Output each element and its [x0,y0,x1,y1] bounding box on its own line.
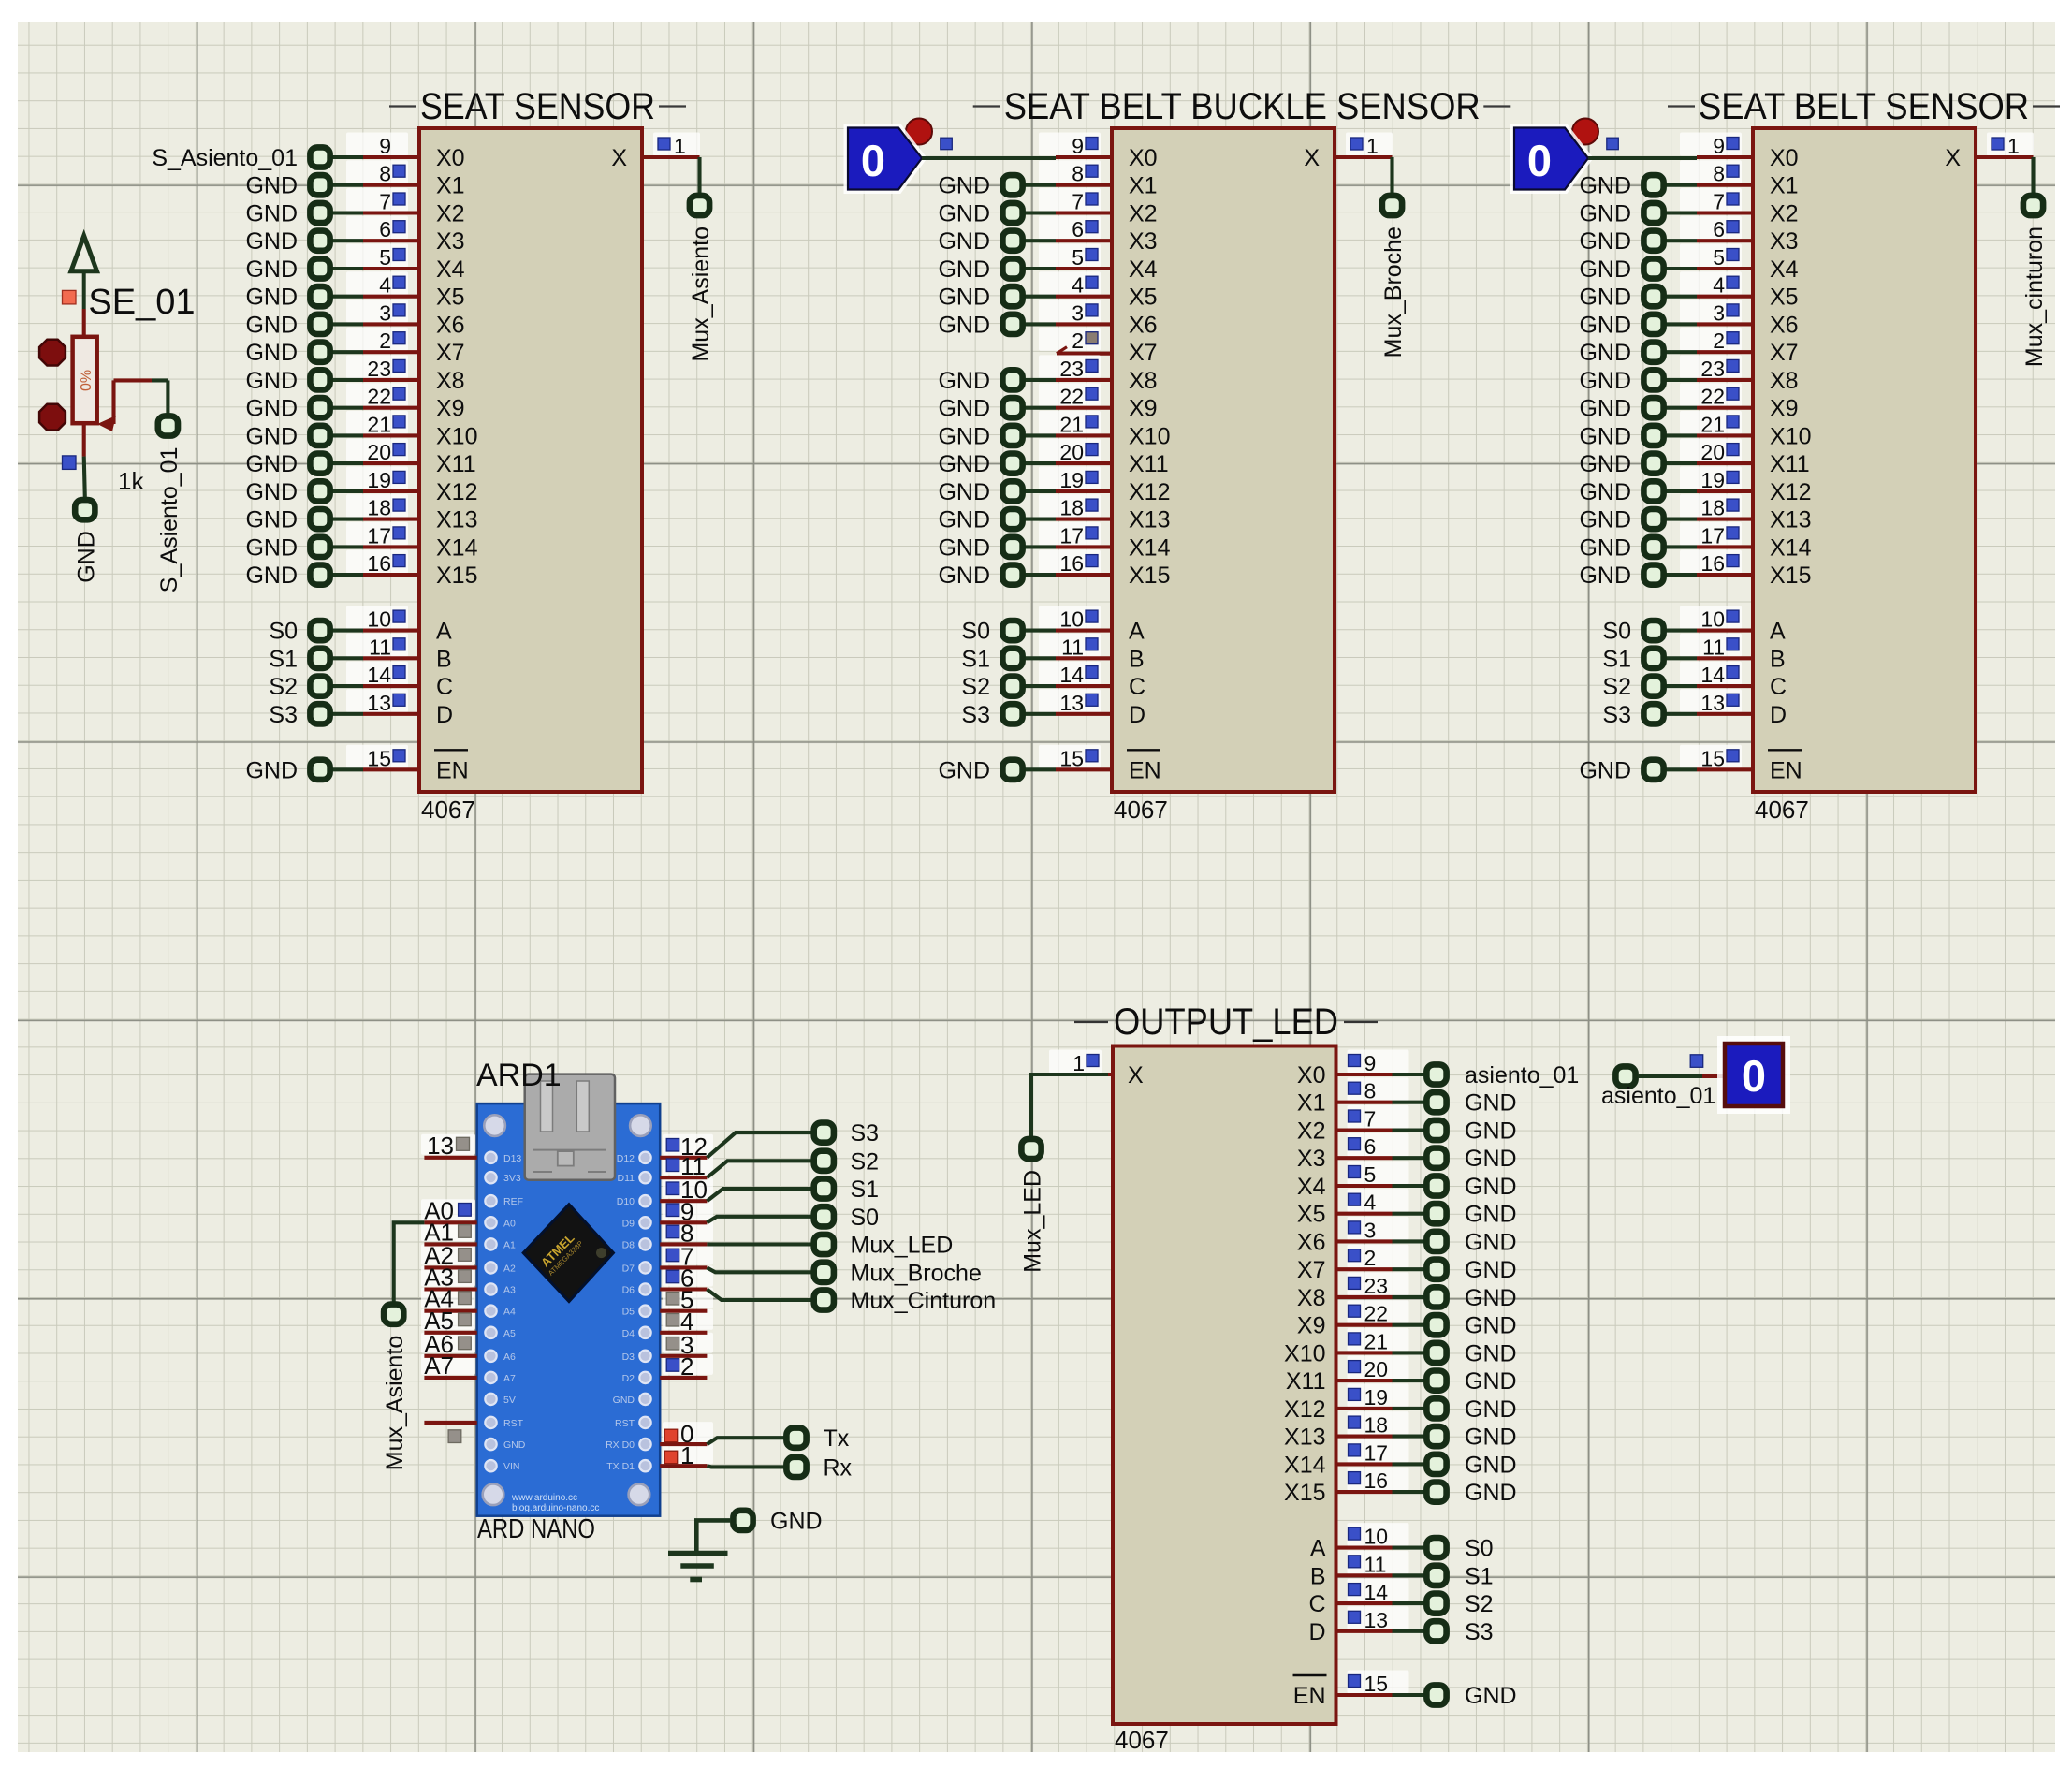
svg-text:S0: S0 [269,619,298,645]
U1 pin 23 (X8) [346,355,419,381]
U1 pin 22 (X9) [346,383,419,409]
terminal Mux_LED [814,1233,954,1259]
svg-text:S2: S2 [1602,674,1631,700]
svg-text:S3: S3 [269,702,298,728]
svg-text:GND: GND [1465,1368,1517,1395]
U4 pin 20 (X11) [1336,1356,1409,1382]
svg-text:17: 17 [1059,523,1084,548]
U2 pin 4 (X5) [1039,271,1112,298]
terminal GND (from X11) [1393,1368,1517,1395]
svg-text:17: 17 [367,523,391,548]
wire X output down to terminal Mux_Broche [1390,157,1393,194]
svg-text:GND: GND [1579,423,1631,449]
svg-text:asiento_01: asiento_01 [1601,1083,1715,1109]
value label 4067 [1755,796,1809,824]
terminal GND (to X7) [245,340,363,366]
node square [1607,138,1619,150]
svg-text:X0: X0 [1297,1062,1326,1089]
svg-text:X1: X1 [436,173,465,199]
terminal GND (from X4) [1393,1174,1517,1200]
svg-text:blog.arduino-nano.cc: blog.arduino-nano.cc [512,1503,599,1513]
terminal GND (to X11) [938,451,1056,477]
svg-text:D5: D5 [622,1307,635,1318]
svg-text:X3: X3 [1297,1146,1326,1172]
terminal GND (to X13) [938,507,1056,533]
svg-text:A7: A7 [424,1352,454,1380]
wire pin 0 to terminal Tx [707,1438,784,1444]
svg-text:B: B [1129,646,1145,672]
svg-text:A: A [1770,619,1786,645]
U4 pin 5 (X4) [1336,1162,1409,1188]
svg-text:GND: GND [1465,1313,1517,1339]
svg-text:22: 22 [1700,385,1725,409]
terminal GND (to X5) [1579,285,1697,311]
terminal GND (to X3) [1579,228,1697,255]
wire X output down to terminal Mux_cinturon [2031,157,2035,194]
svg-text:GND: GND [938,507,990,533]
svg-text:X8: X8 [1129,368,1158,394]
svg-text:Mux_Cinturon: Mux_Cinturon [851,1288,997,1314]
title label "SEAT SENSOR" [389,86,686,127]
terminal S1 (to B) [269,646,363,672]
svg-text:GND: GND [938,228,990,255]
svg-text:S1: S1 [961,646,990,672]
svg-text:1: 1 [1366,134,1379,158]
red toggle dot [906,119,932,145]
U1 pin 21 (X10) [346,411,419,437]
terminal S1 (from B) [1393,1563,1494,1589]
svg-text:X14: X14 [1770,534,1812,561]
svg-text:9: 9 [1072,134,1084,158]
wire U4 X input to terminal Mux_LED [1031,1074,1108,1137]
title label "SEAT BELT BUCKLE SENSOR" [973,86,1511,127]
terminal Mux_Asiento [688,196,714,362]
svg-text:2: 2 [1713,329,1725,353]
svg-text:0: 0 [1527,136,1552,185]
terminal GND (to EN) [938,757,1056,783]
U2 pin 9 (X0) [1039,133,1112,159]
U1 pin 11 (B) [346,634,419,660]
svg-text:GND: GND [1465,1202,1517,1228]
terminal GND (from X2) [1393,1118,1517,1145]
svg-text:SE_01: SE_01 [88,283,195,322]
terminal GND (from X13) [1393,1425,1517,1451]
svg-text:GND: GND [938,285,990,311]
svg-text:1: 1 [2007,134,2020,158]
svg-text:7: 7 [1713,190,1725,214]
wire pin 6 to terminal Mux_Cinturon [707,1290,811,1301]
svg-text:X2: X2 [1297,1118,1326,1145]
svg-text:GND: GND [245,507,298,533]
svg-text:www.arduino.cc: www.arduino.cc [511,1493,577,1503]
wire pin 1 to terminal Rx [707,1466,784,1467]
U3 pin 10 (A) [1680,606,1753,632]
terminal S3 (from D) [1393,1619,1494,1645]
U3 pin 11 (B) [1680,634,1753,660]
node square [941,138,953,150]
svg-text:15: 15 [367,746,391,770]
ARD1 pin 1 (TX) [660,1441,707,1469]
svg-text:GND: GND [245,312,298,338]
U2 pin 6 (X3) [1039,216,1112,242]
terminal GND (from X8) [1393,1285,1517,1311]
svg-text:16: 16 [1364,1468,1389,1493]
value label 4067 [1114,796,1168,824]
ARD1 pin 5 [660,1286,707,1314]
U4 pin 3 (X6) [1336,1217,1409,1243]
ARD1 pin A1 [424,1218,477,1246]
svg-text:X11: X11 [436,451,476,477]
U2 pin 8 (X1) [1039,160,1112,186]
svg-text:Mux_LED: Mux_LED [1020,1170,1046,1273]
U4 pin 8 (X1) [1336,1077,1409,1103]
svg-text:GND: GND [1579,368,1631,394]
svg-text:X9: X9 [1129,396,1158,422]
svg-text:RST: RST [503,1418,524,1429]
svg-text:D10: D10 [617,1196,635,1207]
svg-text:GND: GND [245,534,298,561]
svg-text:X: X [1945,145,1961,171]
U1 pin 13 (D) [346,689,419,715]
U1 pin 17 (X14) [346,522,419,548]
U1 pin 20 (X11) [346,439,419,465]
svg-text:B: B [1770,646,1786,672]
ARD1 pin 7 [660,1242,707,1270]
svg-text:S3: S3 [961,702,990,728]
svg-text:7: 7 [379,190,391,214]
terminal GND (to X14) [245,534,363,561]
value label ARD NANO [477,1514,595,1544]
terminal S1 (to B) [961,646,1056,672]
svg-text:EN: EN [1770,757,1802,783]
svg-text:GND: GND [245,256,298,283]
svg-text:X9: X9 [436,396,465,422]
svg-text:X15: X15 [1129,563,1170,589]
svg-text:X6: X6 [436,312,465,338]
terminal GND (to X9) [938,396,1056,422]
svg-text:19: 19 [1059,468,1084,492]
U3 pin 18 (X13) [1680,494,1753,520]
svg-text:1: 1 [680,1441,693,1469]
U3 pin 3 (X6) [1680,300,1753,326]
svg-text:X13: X13 [1770,507,1811,533]
svg-text:X5: X5 [1770,285,1799,311]
terminal GND (to X5) [245,285,363,311]
svg-text:5: 5 [1364,1162,1377,1187]
terminal GND (to X11) [245,451,363,477]
svg-text:20: 20 [1700,440,1725,464]
U2 pin 10 (A) [1039,606,1112,632]
terminal GND (to X3) [938,228,1056,255]
terminal S3 (to D) [961,702,1056,728]
terminal GND (to X13) [245,507,363,533]
svg-text:X5: X5 [1297,1202,1326,1228]
U3 pin 4 (X5) [1680,271,1753,298]
svg-text:10: 10 [1700,607,1725,632]
svg-text:18: 18 [1364,1413,1389,1438]
U4 pin 6 (X3) [1336,1133,1409,1160]
svg-text:22: 22 [1364,1302,1389,1326]
terminal GND (from X1) [1393,1090,1517,1117]
svg-text:X7: X7 [1297,1257,1326,1283]
svg-text:S0: S0 [851,1205,880,1231]
terminal GND (from X12) [1393,1396,1517,1423]
svg-text:GND: GND [938,451,990,477]
svg-text:EN: EN [436,757,469,783]
ARD1 pin A5 [424,1307,477,1335]
svg-text:2: 2 [680,1352,693,1381]
svg-text:S3: S3 [851,1120,880,1147]
svg-text:13: 13 [1364,1608,1389,1632]
svg-text:X9: X9 [1297,1313,1326,1339]
svg-text:D: D [1308,1619,1325,1645]
svg-text:2: 2 [379,329,391,353]
svg-text:GND: GND [1579,256,1631,283]
svg-text:15: 15 [1364,1672,1389,1696]
ARD1 pin A0 [424,1196,477,1224]
U1 pin 15 (EN) [346,745,419,771]
terminal GND (to X5) [938,285,1056,311]
value label 1k [118,467,144,495]
U2 pin 18 (X13) [1039,494,1112,520]
svg-text:GND: GND [245,340,298,366]
svg-text:SEAT BELT BUCKLE SENSOR: SEAT BELT BUCKLE SENSOR [1004,86,1481,127]
svg-text:8: 8 [379,162,391,186]
pot adjust button up (dark red octagon) [39,340,66,366]
svg-text:14: 14 [367,663,391,687]
svg-text:S2: S2 [961,674,990,700]
svg-text:X2: X2 [436,201,465,227]
svg-text:8: 8 [1072,162,1084,186]
svg-text:X12: X12 [1284,1396,1325,1423]
U2 pin 22 (X9) [1039,383,1112,409]
svg-text:GND: GND [245,423,298,449]
svg-text:X4: X4 [1129,256,1158,283]
svg-text:3: 3 [1072,300,1084,325]
svg-text:GND: GND [613,1395,635,1406]
value label 4067 [421,796,475,824]
ATMEL MCU chip (rotated) [523,1205,613,1302]
svg-text:X11: X11 [1770,451,1810,477]
svg-text:X6: X6 [1770,312,1799,338]
U4 pin 14 (C) [1336,1579,1409,1605]
terminal S0 [814,1205,879,1231]
pot adjust button down (dark red octagon) [39,404,66,431]
reference label ARD1 [476,1058,562,1093]
svg-text:GND: GND [938,757,990,783]
U1 pin 3 (X6) [346,300,419,326]
svg-text:8: 8 [1364,1079,1377,1103]
U2 pin 14 (C) [1039,662,1112,688]
terminal S1 [814,1176,879,1203]
terminal Mux_LED [1020,1139,1046,1273]
svg-text:7: 7 [1072,190,1084,214]
terminal GND (from X9) [1393,1313,1517,1339]
U4 pin 18 (X13) [1336,1411,1409,1438]
svg-text:S2: S2 [269,674,298,700]
svg-text:21: 21 [367,412,391,436]
svg-text:19: 19 [367,468,391,492]
svg-text:GND: GND [1579,173,1631,199]
svg-text:ARD NANO: ARD NANO [477,1514,595,1544]
svg-text:16: 16 [367,551,391,576]
svg-text:ARD1: ARD1 [476,1058,562,1093]
svg-text:S2: S2 [1465,1591,1494,1617]
svg-text:11: 11 [1061,635,1084,659]
svg-text:4: 4 [379,273,391,298]
terminal Mux_cinturon [2021,196,2048,367]
terminal GND (to X14) [938,534,1056,561]
svg-text:21: 21 [1700,412,1725,436]
svg-text:A: A [1310,1536,1326,1562]
terminal GND (to X12) [245,479,363,505]
svg-text:6: 6 [1364,1134,1377,1159]
svg-text:2: 2 [1072,329,1084,353]
svg-text:X10: X10 [1284,1340,1325,1366]
svg-text:18: 18 [367,496,391,520]
svg-text:D13: D13 [503,1153,521,1164]
svg-text:Mux_Asiento: Mux_Asiento [382,1336,408,1471]
svg-text:X4: X4 [1297,1174,1326,1200]
pot bottom pin wire to GND terminal [84,423,85,498]
svg-text:D3: D3 [622,1352,635,1363]
svg-text:20: 20 [1059,440,1084,464]
terminal S1 (to B) [1602,646,1697,672]
svg-text:B: B [436,646,452,672]
svg-text:Tx: Tx [824,1425,850,1452]
svg-text:SEAT BELT SENSOR: SEAT BELT SENSOR [1699,86,2029,127]
svg-text:A7: A7 [503,1373,516,1384]
svg-text:X14: X14 [436,534,478,561]
svg-text:X13: X13 [1284,1425,1325,1451]
svg-text:9: 9 [379,134,391,158]
svg-text:X14: X14 [1284,1452,1326,1478]
svg-text:D6: D6 [622,1285,635,1296]
svg-text:X1: X1 [1770,173,1799,199]
svg-text:D: D [1129,702,1145,728]
terminal GND (to X1) [938,173,1056,199]
svg-text:9: 9 [1364,1051,1377,1075]
svg-text:1: 1 [1072,1051,1085,1075]
svg-text:A6: A6 [503,1352,516,1363]
U4 pin 15 (EN) [1336,1671,1409,1697]
svg-text:14: 14 [1059,663,1084,687]
wire pin 7 to terminal Mux_Broche [707,1267,811,1272]
terminal Mux_Cinturon [814,1288,996,1314]
svg-text:4067: 4067 [1115,1726,1169,1754]
terminal GND (to EN) [1579,757,1697,783]
terminal GND (to X12) [938,479,1056,505]
U2 pin 21 (X10) [1039,411,1112,437]
ARD1 pin 12 [660,1132,708,1161]
U4 pin 23 (X8) [1336,1272,1409,1298]
terminal S2 (to C) [961,674,1056,700]
ARD1 pin 11 [660,1152,707,1180]
ARD1 pin RST [424,1423,476,1443]
IC U4 "OUTPUT_LED" 4067 multiplexer body [1113,1046,1336,1725]
svg-text:asiento_01: asiento_01 [1465,1062,1579,1089]
svg-text:GND: GND [1579,563,1631,589]
ARD1 pin 6 [660,1264,707,1293]
U3 pin 19 (X12) [1680,466,1753,492]
svg-text:B: B [1310,1563,1326,1589]
svg-text:6: 6 [1072,217,1084,241]
terminal GND (to X3) [245,228,363,255]
svg-text:OUTPUT_LED: OUTPUT_LED [1114,1001,1338,1043]
terminal GND (to X6) [245,312,363,338]
terminal S3 [814,1120,879,1147]
ARD1 pin 10 [660,1176,708,1204]
red toggle dot [1572,119,1598,145]
svg-text:2: 2 [1364,1246,1377,1270]
logic probe LP1 pin [1690,1055,1725,1076]
svg-text:VIN: VIN [503,1461,520,1472]
svg-text:A5: A5 [503,1328,516,1339]
svg-text:X8: X8 [436,368,465,394]
terminal S_Asiento_01 (pot wiper) [156,416,182,592]
svg-text:GND: GND [73,531,99,583]
svg-text:X3: X3 [1770,228,1799,255]
terminal S0 (from A) [1393,1536,1494,1562]
ARD1 pin A2 [424,1241,477,1269]
svg-text:13: 13 [1700,691,1725,715]
U3 pin 21 (X10) [1680,411,1753,437]
svg-text:A3: A3 [503,1285,516,1296]
U3 pin 23 (X8) [1680,355,1753,381]
svg-text:RST: RST [615,1418,635,1429]
svg-text:S1: S1 [1465,1563,1494,1589]
U1 pin 1 (X output) [642,133,700,159]
svg-text:X11: X11 [1286,1368,1326,1395]
svg-text:X12: X12 [436,479,477,505]
U4 pin 9 (X0) [1336,1050,1409,1076]
terminal S0 (to A) [961,619,1056,645]
terminal Mux_Asiento (A0) [382,1305,408,1471]
svg-text:Rx: Rx [824,1454,853,1481]
wire X output down to terminal Mux_Asiento [697,157,701,194]
U3 pin 15 (EN) [1680,745,1753,771]
svg-text:A: A [1129,619,1145,645]
ARD1 pin A7 [424,1352,477,1380]
power terminal arrow (pot top) [71,236,97,309]
svg-text:X2: X2 [1770,201,1799,227]
U3 pin 2 (X7) [1680,328,1753,354]
U2 pin 13 (D) [1039,689,1112,715]
U3 pin 22 (X9) [1680,383,1753,409]
svg-text:GND: GND [938,563,990,589]
U4 pin 13 (D) [1336,1606,1409,1632]
svg-text:6: 6 [1713,217,1725,241]
svg-text:X4: X4 [436,256,465,283]
svg-text:GND: GND [1579,534,1631,561]
U2 pin 1 (X output) [1335,133,1393,159]
svg-text:5: 5 [1713,245,1725,270]
svg-text:X0: X0 [1770,145,1799,171]
svg-text:X4: X4 [1770,256,1799,283]
svg-text:X9: X9 [1770,396,1799,422]
svg-text:20: 20 [1364,1357,1389,1381]
svg-text:7: 7 [1364,1107,1377,1132]
svg-text:1: 1 [674,134,686,158]
USB connector [525,1074,615,1180]
svg-text:GND: GND [938,479,990,505]
svg-text:GND: GND [1579,201,1631,227]
svg-text:GND: GND [1465,1480,1517,1506]
svg-text:13: 13 [1059,691,1084,715]
svg-text:S1: S1 [1602,646,1631,672]
wire pin 12 to terminal S3 [707,1132,811,1158]
svg-text:11: 11 [1364,1552,1387,1576]
